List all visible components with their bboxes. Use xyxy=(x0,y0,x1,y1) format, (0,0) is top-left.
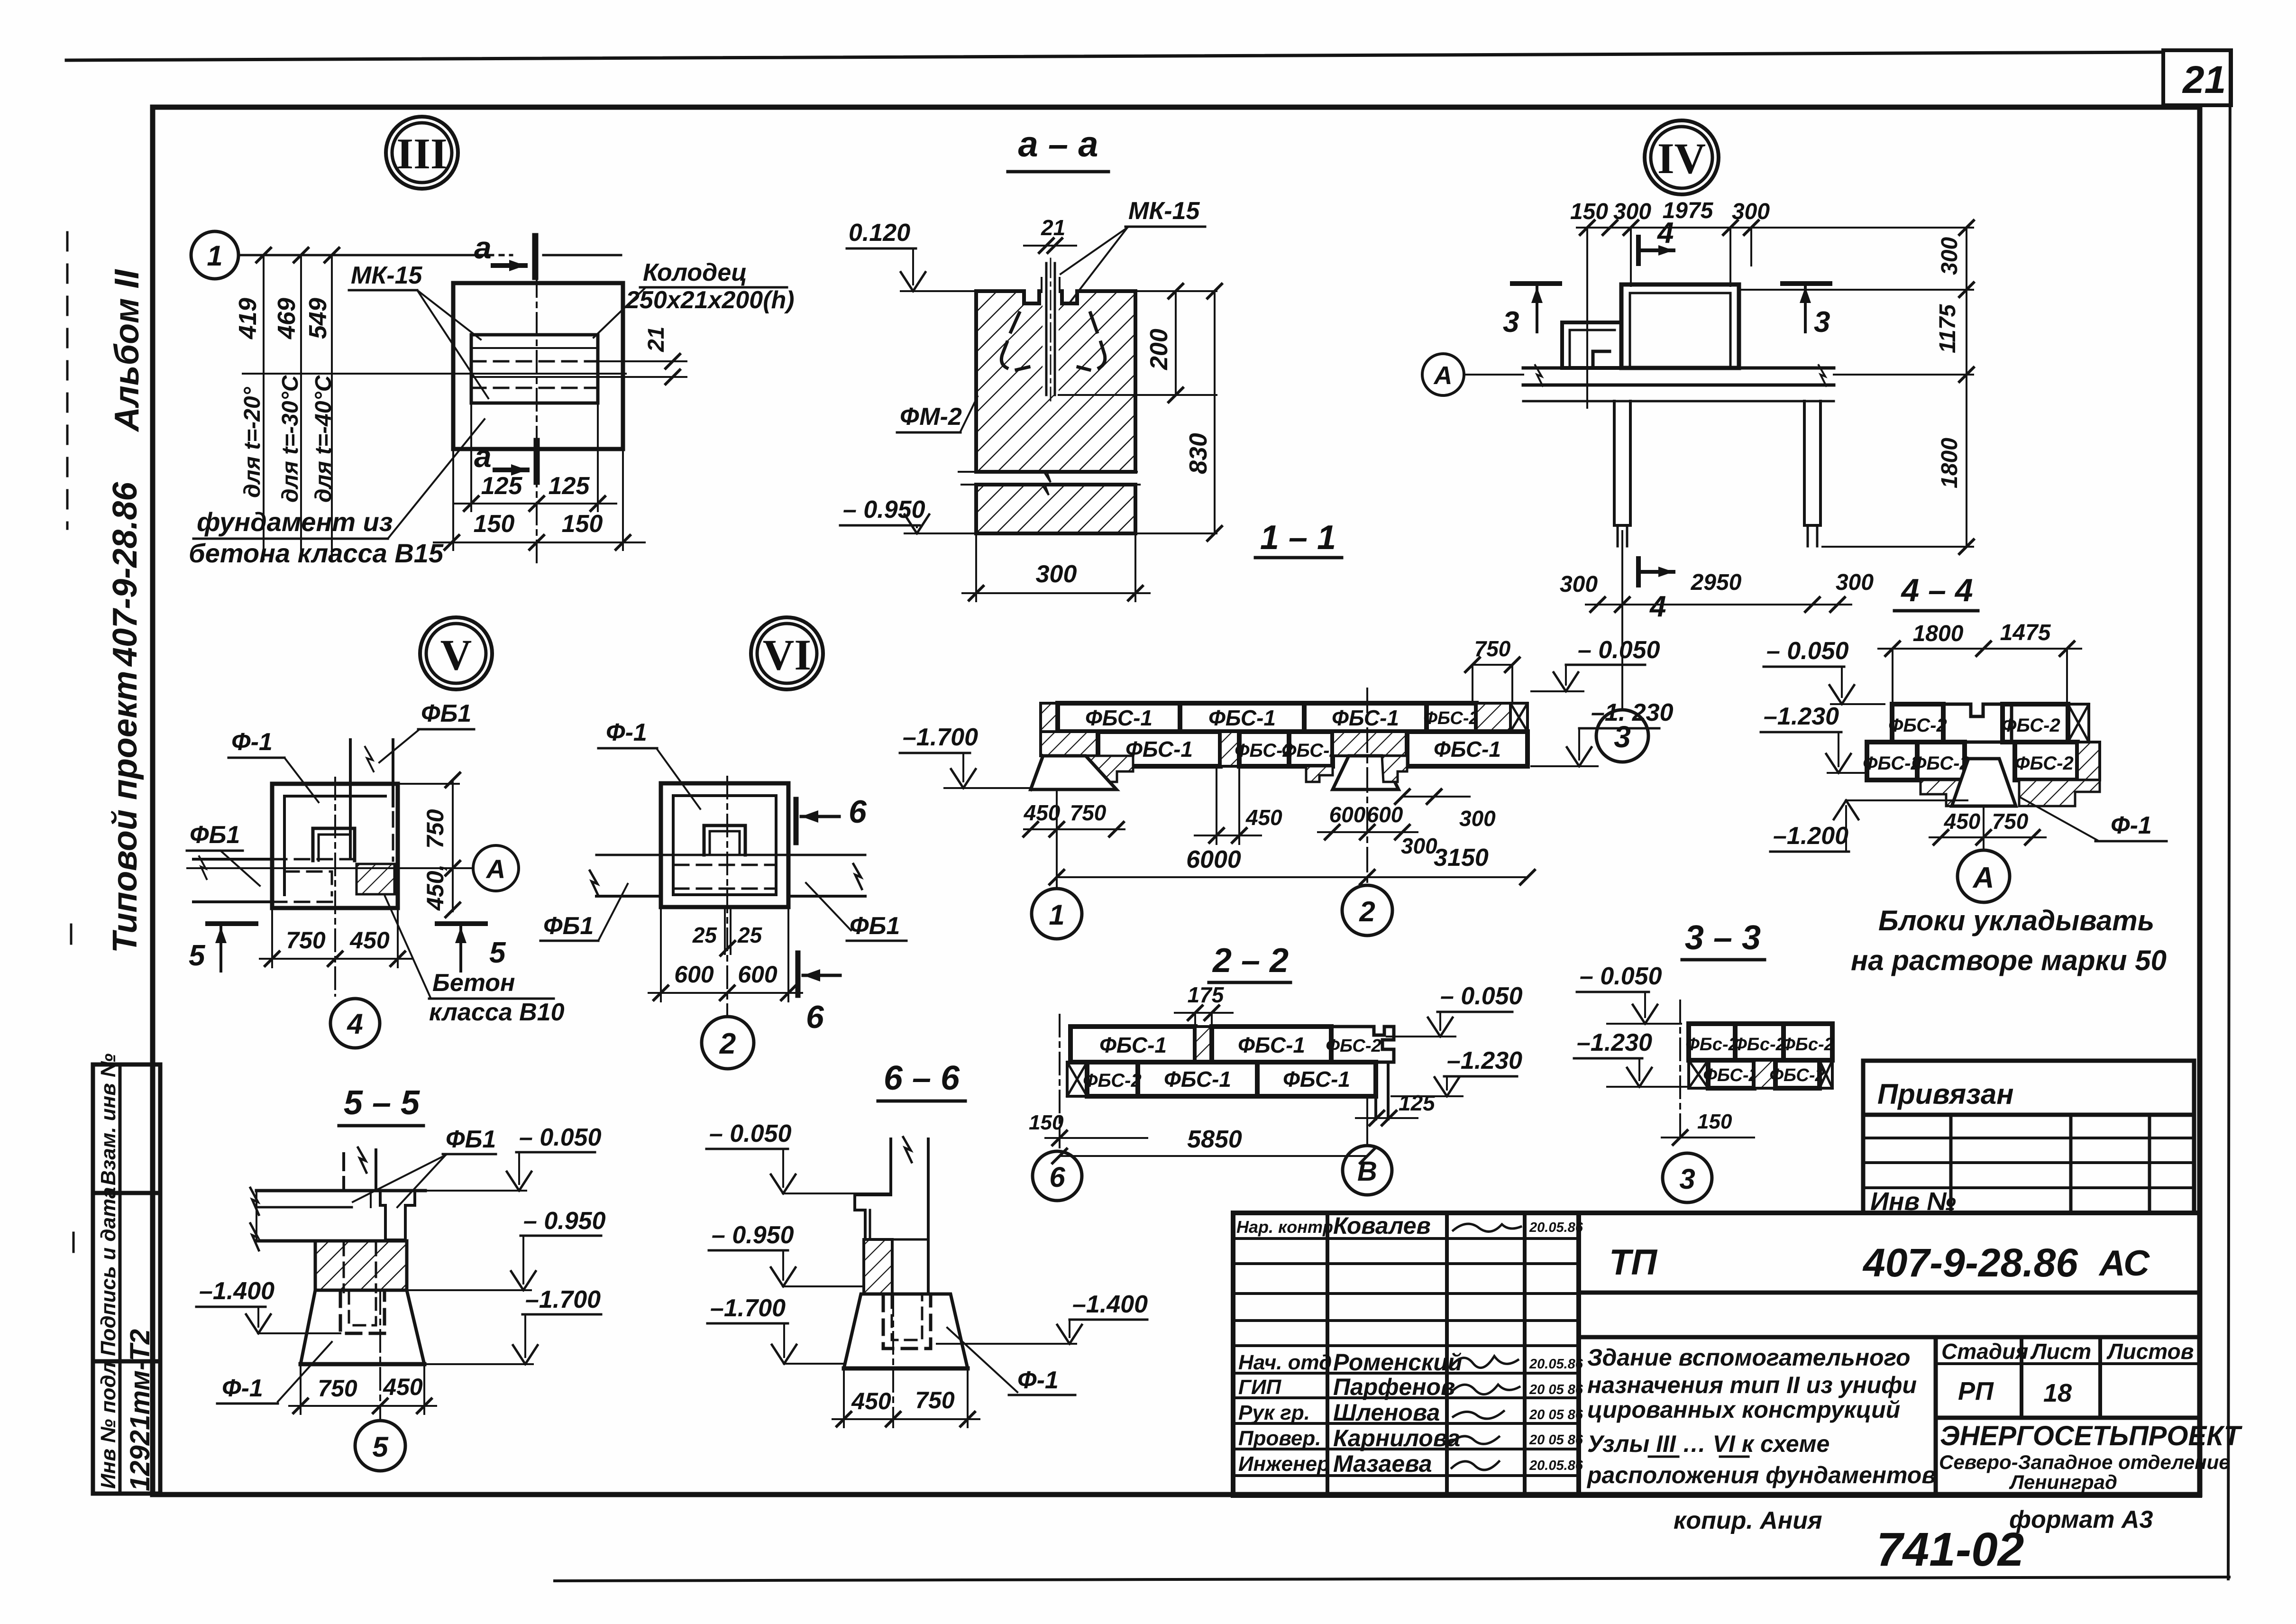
svg-text:ЭНЕРГОСЕТЬПРОЕКТ: ЭНЕРГОСЕТЬПРОЕКТ xyxy=(1940,1421,2243,1451)
svg-text:200: 200 xyxy=(1145,329,1173,370)
svg-text:ФБ1: ФБ1 xyxy=(421,700,471,727)
axis circle 3 xyxy=(1663,1153,1712,1202)
svg-text:ГИП: ГИП xyxy=(1238,1376,1282,1399)
rotated dims 419 469 549 xyxy=(234,298,332,339)
left post xyxy=(1614,401,1630,525)
svg-text:12921тм-Т2: 12921тм-Т2 xyxy=(125,1329,156,1491)
svg-text:600: 600 xyxy=(1367,802,1403,827)
svg-text:Лист: Лист xyxy=(2030,1339,2091,1364)
svg-text:125: 125 xyxy=(481,472,523,500)
svg-text:6: 6 xyxy=(806,999,824,1035)
svg-text:450: 450 xyxy=(383,1374,423,1400)
svg-text:МК-15: МК-15 xyxy=(351,262,423,289)
svg-text:1: 1 xyxy=(207,240,222,272)
well band xyxy=(471,335,598,403)
privyazan table xyxy=(1863,1061,2194,1216)
left column boxes xyxy=(93,1064,160,1494)
svg-text:3: 3 xyxy=(1814,306,1830,339)
row1 notched key piece xyxy=(1943,704,2012,742)
svg-text:4 – 4: 4 – 4 xyxy=(1900,572,1973,608)
svg-text:20 05 86: 20 05 86 xyxy=(1529,1382,1583,1397)
svg-text:ФБС-2: ФБС-2 xyxy=(1423,708,1479,728)
axis circle 6 xyxy=(1033,1151,1082,1201)
svg-text:ФБс-2: ФБс-2 xyxy=(1685,1035,1738,1055)
svg-text:600: 600 xyxy=(738,961,778,988)
signature dates xyxy=(1529,1220,1583,1473)
row1 block FBS-1 a xyxy=(1058,703,1180,732)
svg-text:150: 150 xyxy=(1697,1110,1732,1133)
hatched step left below xyxy=(1921,780,1974,806)
svg-text:VI: VI xyxy=(763,631,811,679)
node IV marker double circle xyxy=(1645,120,1719,194)
hatched step right below xyxy=(2019,780,2100,806)
svg-text:21: 21 xyxy=(2182,58,2226,101)
svg-text:ФБС-1: ФБС-1 xyxy=(1283,1067,1350,1092)
axis 3 circle bottom xyxy=(1621,531,1623,710)
svg-text:ФБС-1: ФБС-1 xyxy=(1238,1033,1305,1057)
svg-text:ФБС-2: ФБС-2 xyxy=(1083,1070,1141,1091)
seat T profile xyxy=(855,1195,891,1239)
dim 21 right xyxy=(598,360,686,362)
svg-text:150: 150 xyxy=(474,510,515,538)
axis A circle xyxy=(1422,354,1464,395)
horizontal axis through plan xyxy=(243,373,626,375)
svg-text:407-9-28.86: 407-9-28.86 xyxy=(1862,1240,2078,1285)
svg-text:V: V xyxy=(440,631,472,679)
svg-text:20 05 86: 20 05 86 xyxy=(1529,1432,1583,1448)
section marker 3 left xyxy=(1512,281,1560,286)
svg-text:цированных конструкций: цированных конструкций xyxy=(1587,1396,1900,1423)
svg-text:450,: 450, xyxy=(422,864,448,911)
monolithic rect plan xyxy=(1621,284,1739,368)
axis A circle xyxy=(1983,806,1985,850)
name/stadia verticals xyxy=(1934,1337,1938,1496)
svg-text:Роменский: Роменский xyxy=(1333,1349,1462,1376)
section marker 3 right xyxy=(1783,281,1830,286)
svg-text:300: 300 xyxy=(1937,237,1962,275)
dim 125 right xyxy=(1370,1111,1396,1125)
row1 hatched strip xyxy=(1195,1027,1212,1062)
signature columns verticals xyxy=(1326,1213,1329,1496)
svg-text:21: 21 xyxy=(1041,215,1065,240)
section marker 4 top xyxy=(1636,237,1641,264)
outer right trim line xyxy=(2228,51,2230,1579)
svg-text:2 – 2: 2 – 2 xyxy=(1212,942,1289,980)
pier hatched xyxy=(315,1241,407,1290)
pier hatched body lower xyxy=(976,485,1135,533)
svg-text:Инв №: Инв № xyxy=(1870,1187,1956,1216)
plan center axis vertical xyxy=(536,237,538,564)
svg-text:ФБс-2: ФБс-2 xyxy=(1733,1035,1786,1055)
wall break marks xyxy=(1535,365,1543,386)
svg-text:Ф-1: Ф-1 xyxy=(1017,1367,1059,1394)
right end drop xyxy=(1376,1062,1388,1119)
svg-text:а – а: а – а xyxy=(1018,124,1098,165)
svg-text:1 – 1: 1 – 1 xyxy=(1260,519,1336,557)
svg-text:300: 300 xyxy=(1836,570,1874,595)
svg-text:Мазаева: Мазаева xyxy=(1333,1450,1432,1477)
dim 6000 3150 xyxy=(1057,876,1528,878)
svg-text:750: 750 xyxy=(1992,809,2029,834)
svg-text:450: 450 xyxy=(1245,805,1282,830)
svg-text:469: 469 xyxy=(273,298,301,339)
row1 block FBS-2 b xyxy=(1735,1024,1784,1060)
svg-text:20.05.86: 20.05.86 xyxy=(1529,1357,1583,1372)
svg-text:3: 3 xyxy=(1679,1163,1695,1195)
wall band xyxy=(1523,367,1834,370)
column strip above xyxy=(349,740,352,857)
svg-text:750: 750 xyxy=(422,809,448,849)
axis A circle xyxy=(473,845,519,891)
svg-text:– 0.050: – 0.050 xyxy=(1766,637,1849,665)
svg-text:Рук гр.: Рук гр. xyxy=(1238,1401,1310,1424)
plan square F-1 xyxy=(272,784,398,908)
axis 2 xyxy=(1366,688,1368,884)
axis vertical xyxy=(726,777,728,1016)
top dim chain xyxy=(1577,227,1761,229)
column xyxy=(889,1139,892,1195)
svg-text:ФБС-1: ФБС-1 xyxy=(1125,737,1193,762)
row2 block FBS-2 xyxy=(1087,1062,1138,1096)
svg-text:450: 450 xyxy=(1944,809,1981,834)
svg-text:5: 5 xyxy=(489,936,506,969)
svg-text:ФБС-2: ФБС-2 xyxy=(1769,1065,1825,1085)
svg-text:2: 2 xyxy=(1359,896,1375,927)
small inner corner xyxy=(1593,351,1610,368)
svg-text:–1.230: –1.230 xyxy=(1447,1047,1522,1074)
svg-text:125: 125 xyxy=(549,472,590,500)
row2 block FBS-2 b xyxy=(1917,742,1965,780)
svg-text:6: 6 xyxy=(849,794,867,830)
svg-text:25: 25 xyxy=(737,923,763,947)
svg-text:класса В10: класса В10 xyxy=(429,999,565,1026)
bottom margin notes xyxy=(1674,1506,2153,1576)
svg-text:–1.400: –1.400 xyxy=(199,1277,274,1305)
svg-text:ФБ1: ФБ1 xyxy=(543,912,594,940)
svg-text:ФБС-2: ФБС-2 xyxy=(1888,715,1947,736)
svg-text:2950: 2950 xyxy=(1691,570,1742,595)
svg-text:В: В xyxy=(1357,1156,1377,1187)
svg-text:–1.700: –1.700 xyxy=(710,1294,786,1322)
axis circle V xyxy=(1366,1096,1368,1145)
row2 block FBS-1 b xyxy=(1257,1062,1376,1096)
section marker 5 right xyxy=(437,921,485,926)
svg-text:450: 450 xyxy=(851,1388,891,1414)
svg-text:–1.200: –1.200 xyxy=(1773,822,1848,850)
svg-text:Взам. инв №: Взам. инв № xyxy=(97,1054,120,1185)
dim 300 right upper xyxy=(1402,796,1470,798)
svg-text:18: 18 xyxy=(2043,1379,2072,1407)
svg-text:600: 600 xyxy=(674,961,714,988)
axis circle 2 xyxy=(702,1017,754,1069)
svg-text:6 – 6: 6 – 6 xyxy=(884,1059,960,1097)
svg-text:Провер.: Провер. xyxy=(1238,1427,1321,1450)
svg-text:20.05.86: 20.05.86 xyxy=(1529,1458,1583,1473)
row2 hatched big left xyxy=(1041,732,1098,756)
svg-text:Листов: Листов xyxy=(2106,1339,2194,1364)
hatched pier xyxy=(864,1239,892,1294)
svg-text:Узлы III … VI к схеме: Узлы III … VI к схеме xyxy=(1587,1431,1829,1457)
svg-text:Ковалев: Ковалев xyxy=(1333,1212,1431,1239)
rotated temp labels xyxy=(240,375,336,503)
wall band left xyxy=(193,858,272,861)
svg-text:бетона класса В15: бетона класса В15 xyxy=(189,538,444,568)
svg-text:расположения фундаментов: расположения фундаментов xyxy=(1586,1462,1936,1488)
row2 block FBS-2 a xyxy=(1708,1060,1754,1088)
section marker 5 left xyxy=(208,921,256,926)
svg-text:300: 300 xyxy=(1401,834,1437,858)
svg-text:600: 600 xyxy=(1329,802,1366,827)
row2 block FBS-2 b xyxy=(1775,1060,1820,1088)
svg-text:ФБС-1: ФБС-1 xyxy=(1099,1033,1167,1057)
svg-text:25: 25 xyxy=(692,923,718,947)
signature texts column2 names xyxy=(1333,1212,1462,1477)
svg-text:А: А xyxy=(1433,361,1453,390)
row1 block FBS-1 c xyxy=(1304,703,1427,732)
svg-text:назначения тип II из унифи: назначения тип II из унифи xyxy=(1587,1372,1917,1398)
svg-text:2: 2 xyxy=(719,1028,736,1060)
foundation plan square xyxy=(453,283,623,449)
svg-text:Привязан: Привязан xyxy=(1877,1078,2013,1110)
dim ticks on axis xyxy=(256,248,339,262)
dim 830 right xyxy=(1214,291,1216,533)
svg-text:– 0.950: – 0.950 xyxy=(843,496,925,523)
main frame xyxy=(153,107,2200,1495)
svg-text:3: 3 xyxy=(1503,306,1519,339)
bottom trim line xyxy=(555,1577,2229,1581)
axis vertical center xyxy=(334,778,336,996)
mid footing hatched steps right xyxy=(1382,756,1407,782)
row1 X block xyxy=(2068,704,2089,742)
svg-text:5: 5 xyxy=(372,1431,389,1463)
dim 200 right xyxy=(1135,290,1217,292)
svg-text:ФМ-2: ФМ-2 xyxy=(900,403,962,431)
svg-text:–1.400: –1.400 xyxy=(1072,1291,1148,1318)
dims 450 750 xyxy=(843,1368,845,1427)
row2 X block right xyxy=(1820,1060,1832,1088)
svg-text:300: 300 xyxy=(1613,199,1651,224)
axis center xyxy=(892,1294,894,1427)
svg-text:125: 125 xyxy=(1399,1091,1436,1115)
section marker 4 bottom xyxy=(1636,559,1641,585)
svg-text:0.120: 0.120 xyxy=(849,219,910,247)
signature texts column1 xyxy=(1236,1217,1333,1476)
svg-text:750: 750 xyxy=(1070,800,1107,825)
dim 750 top right xyxy=(1473,664,1512,666)
bolt strip below xyxy=(724,907,726,954)
svg-text:ФБС-2: ФБС-2 xyxy=(2015,753,2073,774)
svg-text:Ф-1: Ф-1 xyxy=(231,728,273,756)
svg-text:Блоки укладывать: Блоки укладывать xyxy=(1878,905,2154,936)
dim 600 600 mid xyxy=(1318,831,1418,833)
svg-text:– 0.050: – 0.050 xyxy=(1578,636,1660,664)
dim 600 600 xyxy=(660,907,662,1001)
svg-text:4: 4 xyxy=(1656,217,1674,249)
row1 hatched piece xyxy=(1476,703,1510,732)
svg-text:Парфенов: Парфенов xyxy=(1333,1374,1455,1400)
svg-text:450: 450 xyxy=(1024,800,1061,825)
svg-text:Ф-1: Ф-1 xyxy=(606,719,647,746)
row1 block FBS-2 c xyxy=(1784,1024,1832,1060)
svg-text:Нач. отд: Нач. отд xyxy=(1238,1351,1332,1374)
row1 block FBS-2 left xyxy=(1892,704,1943,742)
svg-text:150: 150 xyxy=(1029,1111,1064,1134)
node III marker double circle xyxy=(386,117,458,189)
svg-text:6000: 6000 xyxy=(1186,846,1241,873)
dim 450 750 xyxy=(1930,836,2046,838)
bottom dim 750/450 xyxy=(271,908,273,967)
svg-text:Ленинград: Ленинград xyxy=(2009,1471,2117,1493)
svg-text:750: 750 xyxy=(1474,636,1511,661)
top dim 1800 1475 xyxy=(1878,648,2081,650)
svg-text:ФБ1: ФБ1 xyxy=(190,821,240,849)
axis horizontal xyxy=(187,867,472,869)
svg-text:–1.230: –1.230 xyxy=(1577,1029,1652,1056)
row2 block FBS-1 a xyxy=(1098,732,1220,766)
svg-text:750: 750 xyxy=(318,1375,357,1402)
project name text xyxy=(1586,1344,1936,1488)
dashed inner xyxy=(392,789,394,861)
svg-text:формат А3: формат А3 xyxy=(2009,1506,2153,1533)
row1 block FBS-2 a xyxy=(1689,1024,1735,1060)
svg-text:а: а xyxy=(474,439,492,474)
dim 150 150 xyxy=(434,541,645,543)
svg-text:300: 300 xyxy=(1732,199,1770,224)
svg-text:Ф-1: Ф-1 xyxy=(222,1375,263,1402)
anchor hooks dashed xyxy=(1001,313,1029,370)
section marker 6 top right xyxy=(794,799,799,843)
svg-text:– 0.050: – 0.050 xyxy=(519,1124,602,1151)
svg-text:300: 300 xyxy=(1560,572,1598,597)
plan square F-1 xyxy=(661,783,788,907)
row2 block FBS-2 a xyxy=(1239,732,1289,766)
svg-text:250х21х200(h): 250х21х200(h) xyxy=(625,286,795,314)
svg-text:549: 549 xyxy=(304,298,332,339)
dim 450 750 left xyxy=(1024,828,1125,830)
dashed wall through square xyxy=(272,858,360,861)
svg-text:ФБС-1: ФБС-1 xyxy=(1208,706,1276,730)
svg-text:ФБС-1: ФБС-1 xyxy=(1085,706,1153,730)
svg-text:Альбом II: Альбом II xyxy=(108,269,146,432)
svg-text:на растворе марки 50: на растворе марки 50 xyxy=(1851,945,2167,976)
svg-text:РП: РП xyxy=(1958,1377,1994,1405)
small square F-1 plan xyxy=(1562,322,1621,368)
svg-text:ФБС-1: ФБС-1 xyxy=(1434,737,1501,762)
top trim line xyxy=(66,52,2163,60)
sheet number box 21 xyxy=(2163,50,2231,105)
svg-text:– 0.050: – 0.050 xyxy=(1440,982,1523,1010)
footing trapezoid xyxy=(1952,759,2016,806)
stadia header texts xyxy=(1941,1339,2194,1407)
extension verticals from top dims xyxy=(1587,228,1751,408)
dim chain verticals xyxy=(264,255,332,560)
footing trapezoid xyxy=(301,1290,424,1364)
right post xyxy=(1804,401,1820,525)
svg-text:IV: IV xyxy=(1657,134,1706,183)
svg-text:для t=-30°С: для t=-30°С xyxy=(278,375,303,503)
title block outline xyxy=(1233,1213,2200,1496)
signature squiggles xyxy=(1452,1224,1521,1470)
right dim chain xyxy=(1966,228,1967,547)
row1 block FBS-2 xyxy=(1427,703,1476,732)
column dashed through pier xyxy=(343,1241,345,1292)
svg-text:750: 750 xyxy=(286,927,326,954)
svg-text:А: А xyxy=(485,854,505,884)
node VI marker double circle xyxy=(751,617,823,689)
axis line horizontal xyxy=(238,254,474,257)
row2 hatched strip xyxy=(1754,1060,1775,1088)
axis to circle 5 xyxy=(379,1292,381,1421)
footing trapezoid xyxy=(844,1294,968,1368)
svg-text:ФБС-2: ФБС-2 xyxy=(1703,1065,1758,1085)
ground break lines xyxy=(959,472,1137,482)
svg-text:1475: 1475 xyxy=(2000,620,2051,645)
dim 300 bottom xyxy=(975,533,977,601)
svg-text:1175: 1175 xyxy=(1935,303,1960,353)
row1 block FBS-1 b xyxy=(1180,703,1304,732)
row1 hatched stub left xyxy=(1041,703,1058,732)
row2 block FBS-1 a xyxy=(1138,1062,1257,1096)
axis circle 4 xyxy=(330,999,380,1048)
row1 block FBS-1 b xyxy=(1212,1027,1331,1062)
title block xyxy=(1233,1212,2243,1496)
row2 X block left xyxy=(1689,1060,1708,1088)
svg-text:– 0.050: – 0.050 xyxy=(1580,963,1662,990)
svg-text:для t=-20°: для t=-20° xyxy=(240,386,265,498)
svg-text:ФБС-2: ФБС-2 xyxy=(1326,1036,1381,1056)
svg-text:–1.230: –1.230 xyxy=(1764,703,1839,730)
svg-text:ФБ1: ФБ1 xyxy=(850,912,900,940)
svg-text:фундамент из: фундамент из xyxy=(197,507,393,537)
svg-text:300: 300 xyxy=(1036,560,1077,588)
svg-text:6: 6 xyxy=(1049,1161,1065,1193)
svg-text:150: 150 xyxy=(1570,199,1608,224)
svg-text:–1.700: –1.700 xyxy=(903,724,978,751)
axis vertical xyxy=(1679,1000,1681,1140)
svg-text:III: III xyxy=(396,129,447,178)
section marker 6 bottom right xyxy=(796,953,801,995)
svg-text:А: А xyxy=(1972,862,1994,894)
svg-text:ФБС-2: ФБС-2 xyxy=(1912,753,1970,774)
axis 1 xyxy=(1056,789,1058,888)
svg-text:300: 300 xyxy=(1459,806,1496,831)
dim 125 125 xyxy=(455,503,616,505)
svg-text:ФБС-1: ФБС-1 xyxy=(1164,1067,1231,1092)
row1 block FBS-2 with notch xyxy=(1331,1027,1394,1062)
signature rows xyxy=(1233,1239,1579,1476)
svg-text:5 – 5: 5 – 5 xyxy=(344,1084,420,1122)
left fold dashes xyxy=(66,232,69,529)
svg-text:Здание вспомогательного: Здание вспомогательного xyxy=(1587,1344,1911,1371)
svg-text:150: 150 xyxy=(562,510,603,538)
svg-text:АС: АС xyxy=(2098,1243,2150,1284)
svg-text:Стадия: Стадия xyxy=(1941,1339,2028,1364)
svg-text:Инв № подл: Инв № подл xyxy=(97,1362,120,1489)
mid footing trapezoid xyxy=(1333,756,1399,789)
row2 block FBS-2 b xyxy=(1289,732,1333,766)
dims 750 450 xyxy=(300,1364,302,1414)
svg-text:для t=-40°С: для t=-40°С xyxy=(311,375,336,503)
svg-text:Шленова: Шленова xyxy=(1333,1399,1440,1426)
svg-text:830: 830 xyxy=(1185,433,1212,474)
svg-text:1800: 1800 xyxy=(1937,438,1962,488)
svg-text:–1. 230: –1. 230 xyxy=(1591,699,1674,726)
extension verticals below xyxy=(453,403,623,550)
svg-text:175: 175 xyxy=(1188,982,1225,1007)
dim 450 mid xyxy=(1216,766,1217,844)
row2 block FBS-2 c xyxy=(2015,742,2077,780)
row2 X block left xyxy=(1067,1062,1087,1096)
